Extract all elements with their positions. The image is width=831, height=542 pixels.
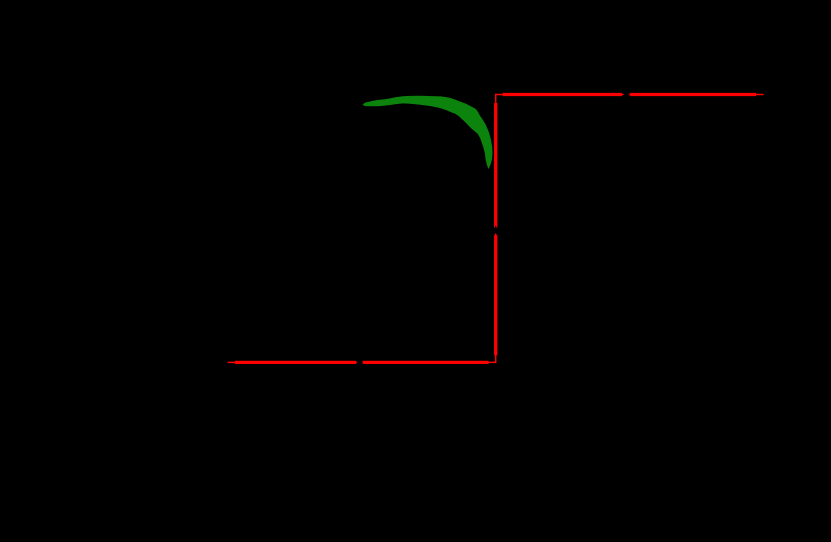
wire: thick red dash, bottom segment right xyxy=(363,361,489,364)
wire: thick red dash, top segment right xyxy=(630,93,756,96)
wire: thick red dash, top segment left xyxy=(503,93,622,96)
node A: black arrowhead on bottom segment (points right) xyxy=(355,359,363,367)
green brush-stroke crescent xyxy=(363,96,493,169)
node C: black arrowhead on top segment (points right) xyxy=(622,91,630,99)
wire: thick red dash, vertical segment lower xyxy=(494,235,497,355)
node B: black arrowhead on vertical segment (points up) xyxy=(492,225,500,235)
wire: thick red dash, bottom segment left xyxy=(235,361,356,364)
wire: thick red dash, vertical segment upper xyxy=(494,103,497,228)
wire: thin red step-function polyline (underlay) xyxy=(228,95,764,363)
